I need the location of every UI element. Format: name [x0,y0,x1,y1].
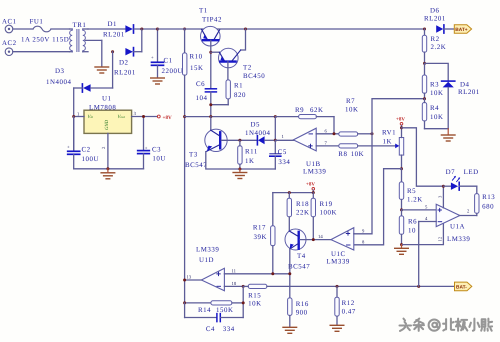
wire [51,28,70,30]
svg-text:R12: R12 [342,300,355,307]
svg-text:820: 820 [234,92,246,99]
svg-text:C3: C3 [152,147,161,154]
svg-text:1K: 1K [383,139,393,146]
svg-text:RL201: RL201 [458,89,480,96]
port BAT+ [454,25,471,34]
capacitor C3 10U [138,117,166,169]
node (rail/mid-rail) [183,115,186,118]
ground (R16) [283,327,297,333]
diode D4 RL201 [442,81,480,129]
resistor R4 10K [422,99,443,129]
wire (top rail into T1) [158,28,204,30]
wire (U1 pin1) [74,116,84,118]
wire [13,28,33,30]
watermark glyph @ [429,320,440,331]
svg-text:12: 12 [438,236,444,241]
node (U1A -in drop) [417,285,420,288]
transistor T1 TIP42 [199,8,222,47]
svg-text:T2: T2 [243,65,252,72]
node (R7 / sense line) [371,132,374,135]
resistor R6 10 [399,210,417,245]
wire [141,29,143,52]
node (R12 top) [336,285,339,288]
svg-text:BC547: BC547 [185,162,207,169]
svg-text:C6: C6 [196,81,205,88]
svg-text:1.2K: 1.2K [407,197,423,204]
wire (T4 emitter) [289,249,291,298]
svg-text:150K: 150K [216,307,234,314]
wire (U1B +in) [316,145,339,147]
node (R3/R4 divider) [423,97,426,100]
wire (R17 top rail) [273,192,314,194]
node (T2 collector branch) [244,28,247,31]
svg-text:LM339: LM339 [303,169,326,176]
ground (C2/C3) [101,169,115,179]
svg-text:3: 3 [438,195,444,198]
wire (left long rail R10..U1D) [184,117,186,303]
fuse FU1 [21,19,69,44]
svg-text:11: 11 [232,269,237,275]
svg-text:R15: R15 [248,293,261,300]
svg-text:100K: 100K [320,210,338,217]
svg-text:R17: R17 [253,225,266,232]
comparator U1C LM339 [326,228,354,266]
watermark glyph 北 [443,319,454,331]
wire (T3 emitter) [206,152,275,169]
svg-text:0.47: 0.47 [342,309,356,316]
svg-text:RV1: RV1 [382,130,396,137]
svg-text:14: 14 [318,234,323,240]
svg-text:R16: R16 [296,301,309,308]
resistor R18 22K [287,193,309,231]
svg-text:R2: R2 [431,36,440,43]
node (U1D -in / R15 / R14) [242,285,245,288]
resistor R17 39K [253,193,275,274]
svg-text:+8V: +8V [306,182,315,188]
svg-text:TIP42: TIP42 [202,17,222,24]
capacitor C1 2200U [151,29,183,78]
svg-text:+: + [145,147,148,152]
wire [134,28,158,30]
wire (T4 base) [300,239,331,241]
wire (R4 bottom to D4 gnd) [425,128,449,130]
svg-text:BAT-: BAT- [456,284,467,290]
svg-text:10K: 10K [351,151,365,158]
regulator U1 LM7808 [84,96,132,134]
terminal +8V (R18/R19) [306,182,315,193]
svg-text:D6: D6 [430,8,440,15]
diode D1 RL201 [103,21,134,39]
svg-text:1: 1 [282,134,285,140]
svg-text:T3: T3 [189,152,198,159]
capacitor C6 104 [196,81,217,117]
node (T4 emitter / R16) [288,272,291,275]
svg-text:39K: 39K [254,234,268,241]
wire [274,117,276,141]
node (R18 top) [288,191,291,194]
svg-text:15K: 15K [190,65,204,72]
svg-text:R18: R18 [296,201,309,208]
svg-text:+: + [67,146,70,151]
port BAT- [455,282,472,291]
wire (U1 pin3) [132,116,158,118]
wire (T1 base down) [210,40,212,88]
wire (U1D -in) [224,285,243,287]
resistor R9 62K [275,107,334,119]
svg-text:100U: 100U [82,156,100,163]
svg-text:D5: D5 [251,122,261,129]
svg-text:R9: R9 [295,107,304,114]
svg-text:2200U: 2200U [162,68,184,75]
comparator U1D LM339 [185,247,225,291]
svg-text:D2: D2 [119,60,129,67]
svg-text:62K: 62K [310,107,324,114]
resistor R16 900 [288,298,309,327]
transistor T3 BC547 [185,117,227,169]
node (R1/C6) [209,103,212,106]
svg-text:10K: 10K [345,107,359,114]
resistor R13 680 [475,186,496,215]
svg-text:D1: D1 [108,21,118,28]
wire (U1 pin2) [107,133,109,168]
node (D1-D2 junction) [140,28,143,31]
node (R6 bottom / gnd) [400,243,403,246]
svg-text:R1: R1 [234,83,243,90]
node (T1 base / T2 emitter) [209,51,212,54]
ground (R6) [395,245,409,255]
svg-text:LED: LED [464,169,479,176]
watermark glyph 小 [469,319,479,331]
node (RV1 bottom / R5) [400,167,403,170]
wire (gnd to U1A pin12) [402,223,444,244]
resistor R10 15K [183,29,204,117]
svg-text:U1: U1 [102,96,112,103]
node (R14 left / rail) [183,301,186,304]
node (T4 base / R19 / U1C out) [312,238,315,241]
svg-text:1N4004: 1N4004 [46,79,72,86]
diode D5 1N4004 [245,122,275,145]
wire (mid rail) [185,116,276,118]
transformer TR1 [70,22,102,52]
svg-text:+8V: +8V [163,115,173,121]
svg-text:R10: R10 [190,54,203,61]
svg-text:U1C: U1C [331,251,346,258]
svg-text:T4: T4 [297,253,306,260]
svg-text:C1: C1 [164,58,173,65]
wire (RV1 bottom to U1C-) [354,169,402,245]
wire [73,88,75,151]
diode D2 RL201 [114,48,142,77]
svg-text:BAT+: BAT+ [455,27,468,33]
wire (U1B -in) [316,133,339,135]
wire [88,28,125,30]
node (R5/R6 junction) [400,208,403,211]
wire (sense node up to R3/R4) [372,99,425,134]
svg-text:BC547: BC547 [288,264,310,271]
capacitor C2 100U [67,117,99,169]
resistor R19 100K [311,193,337,240]
terminal +8V (RV1) [396,117,405,128]
svg-text:10K: 10K [248,301,262,308]
svg-text:D4: D4 [460,81,470,88]
node (R19 top / +8V) [312,191,315,194]
svg-text:R6: R6 [408,219,417,226]
watermark [400,319,493,331]
svg-text:10: 10 [232,281,237,287]
svg-text:+: + [151,56,154,61]
svg-text:R4: R4 [430,105,439,112]
wire [13,51,70,53]
wire (current sense rail) [267,285,455,287]
resistor R8 10K [338,144,395,158]
capacitor C5 334 [270,140,291,169]
node (mid rail / R9 / U1B out drop) [274,115,277,118]
wire (sense node down to U1C+) [354,134,372,234]
node (R2 bottom / R3 / D4) [423,62,426,65]
comparator U1A LM339 [419,186,477,243]
resistor R2 2.2K [422,29,446,63]
watermark glyph 头 [400,319,412,331]
node (R10 top / rail) [183,28,186,31]
wire (+8V to D7 row) [402,128,444,186]
ground (R12) [330,325,344,331]
svg-text:FU1: FU1 [30,19,44,26]
node (gnd pin tee) [106,167,109,170]
node (RV1 top) [400,126,403,129]
node (R14 right) [242,301,245,304]
svg-text:RL201: RL201 [424,16,446,23]
wire (feedback vertical) [242,286,244,317]
svg-text:RL201: RL201 [103,32,125,39]
svg-text:2.2K: 2.2K [431,44,447,51]
node (U1D out / rail) [183,279,186,282]
node (T3 base / R11 / D5) [238,139,241,142]
resistor R11 1K [238,140,258,169]
svg-text:R8: R8 [338,151,347,158]
resistor R1 820 [211,80,246,105]
svg-text:U1D: U1D [199,257,214,264]
wire (bottom rail C2-C3) [74,168,144,170]
svg-text:LM7808: LM7808 [89,104,116,111]
svg-text:2: 2 [101,146,107,149]
node (R17 bottom) [271,272,274,275]
svg-text:RL201: RL201 [114,70,136,77]
svg-text:680: 680 [482,204,494,211]
watermark glyph 熊 [481,319,492,331]
svg-text:LM339: LM339 [447,236,470,243]
svg-text:10: 10 [408,228,416,235]
svg-text:10K: 10K [430,90,444,97]
svg-text:BC450: BC450 [243,73,265,80]
wire (U1D +in) [224,273,289,275]
node (D5 / C5 / U1B out) [274,139,277,142]
node (R9/R7/-in) [333,132,336,135]
svg-text:R5: R5 [407,188,416,195]
resistor R12 0.47 [335,286,356,324]
ground (R11/C5 row) [233,169,247,179]
svg-text:900: 900 [296,310,308,317]
wire (top rail T1 to D6) [218,28,425,30]
svg-text:10U: 10U [152,156,166,163]
terminal +8V (regulator output) [157,115,172,121]
wire (to U1A +in) [402,209,437,211]
svg-text:GND: GND [104,119,110,130]
svg-text:R7: R7 [346,98,355,105]
wire (U1A -in vertical) [418,222,420,287]
svg-text:D3: D3 [55,68,65,75]
watermark glyph 条 [414,319,425,331]
svg-text:+8V: +8V [396,117,405,123]
node (R11 bottom) [238,168,241,171]
svg-text:104: 104 [196,95,208,102]
svg-text:R11: R11 [245,149,258,156]
resistor R15 10K [243,284,267,307]
node (D7 feed) [442,185,445,188]
ground (transformer center tap) [95,40,109,73]
svg-text:R13: R13 [482,194,495,201]
ground (R4/D4) [441,129,455,141]
svg-text:D7: D7 [446,169,456,176]
transistor T2 BC450 [211,48,265,80]
node (top rail / D6 / R2) [423,28,426,31]
resistor R14 150K [185,301,244,314]
svg-text:C5: C5 [278,149,287,156]
wire (T2 base) [227,62,229,80]
svg-text:U1A: U1A [450,224,465,231]
watermark glyph 极 [456,319,468,331]
svg-text:R19: R19 [320,201,333,208]
LED D7 [443,169,478,190]
comparator U1B LM339 [275,128,326,175]
svg-text:2: 2 [467,209,470,215]
node (C1 top) [156,28,159,31]
terminal AC1 [2,19,17,33]
svg-text:LM339: LM339 [196,247,219,254]
svg-text:334: 334 [278,159,290,166]
transistor T4 BC547 [285,229,310,271]
svg-text:10K: 10K [430,114,444,121]
svg-text:1N4004: 1N4004 [245,130,271,137]
wire (R9 to -in) [333,117,335,134]
svg-text:R3: R3 [430,81,439,88]
svg-text:C2: C2 [82,147,91,154]
wire [112,52,114,88]
svg-text:T1: T1 [199,8,208,15]
wire [241,29,246,50]
diode D6 RL201 [424,8,454,34]
svg-text:1K: 1K [245,158,255,165]
svg-text:TR1: TR1 [73,22,87,29]
resistor R5 1.2K [399,169,422,210]
node (C3 top) [142,115,145,118]
svg-text:AC2: AC2 [2,40,17,47]
terminal AC2 [2,40,17,56]
svg-text:334: 334 [223,326,235,333]
svg-text:22K: 22K [296,210,310,217]
node (Vin) [72,115,75,118]
resistor R3 10K [422,63,443,98]
potentiometer RV1 1K [382,128,404,169]
wire (to D4) [425,63,449,80]
svg-text:U1B: U1B [306,161,321,168]
node (T3 collector / C6) [209,115,212,118]
svg-text:1A 250V 115D: 1A 250V 115D [21,37,69,44]
capacitor C4 334 [185,303,244,333]
svg-text:LM339: LM339 [326,258,349,265]
ground (C1) [151,78,165,84]
svg-text:13: 13 [187,275,192,281]
resistor R7 10K [339,98,372,136]
diode D3 1N4004 [46,68,113,92]
node (D2 anode / D3 branch) [111,50,114,53]
svg-text:AC1: AC1 [2,19,17,26]
svg-text:C4: C4 [206,326,215,333]
wire (T3 base) [221,139,257,141]
svg-text:R14: R14 [198,307,211,314]
